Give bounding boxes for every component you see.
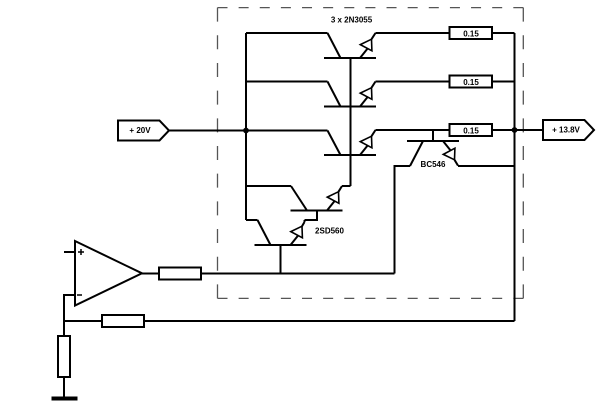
wire: op-amp non-inverting input stub: [64, 251, 75, 253]
transistor Q1 (2N3055): [324, 33, 376, 58]
wire: Q1 collector row: [246, 32, 328, 34]
svg-text:+ 13.8V: + 13.8V: [552, 126, 580, 135]
resistor R2 0.15: [450, 76, 493, 88]
wire: R4 to driver base node: [201, 273, 395, 275]
resistor R4 (op-amp output): [159, 268, 201, 280]
resistor R3 0.15: [450, 124, 493, 136]
svg-text:2SD560: 2SD560: [315, 227, 344, 236]
resistor R1 0.15: [450, 27, 493, 39]
wire: R5 to output bus bottom run: [144, 320, 515, 322]
wire: R6 bottom lead: [63, 377, 65, 397]
wire: left collector bus vertical: [245, 33, 247, 220]
wire: output node to +13.8V tag: [515, 129, 544, 131]
transistor Q3 (2N3055): [324, 130, 376, 155]
ground: [52, 397, 78, 401]
wire: Q4 base lead jog: [305, 211, 318, 221]
wire: feedback node to R5: [64, 320, 102, 322]
node: +20V junction dot: [243, 128, 249, 134]
svg-text:3 x 2N3055: 3 x 2N3055: [331, 16, 373, 25]
wire: Q1 emitter to R1: [376, 32, 450, 34]
wire: Q5 collector jog: [246, 219, 258, 221]
transistor Q2 (2N3055): [324, 82, 376, 107]
wire: Q4 emitter jog to base bus: [342, 185, 351, 187]
wire: base bus Q1-Q3 vertical: [350, 58, 352, 186]
wire: R2 to output bus: [492, 81, 515, 83]
wire: Q6 emitter to output bus: [458, 165, 515, 167]
wire: op-amp output to R4: [142, 273, 159, 275]
output tag +13.8V: [543, 120, 594, 140]
wire: Q6 collector down to driver node: [395, 166, 411, 274]
wire: Q2 emitter to R2: [376, 81, 450, 83]
wire: R6 top lead: [63, 321, 65, 336]
wire: Q3 emitter to R3: [376, 129, 450, 131]
transistor Q6 (BC546, inverted): [407, 130, 459, 166]
transistor Q4 (driver): [291, 186, 343, 211]
supply tag +20V: [118, 121, 169, 141]
svg-text:BC546: BC546: [421, 160, 446, 169]
wire: Q2 collector row: [246, 81, 328, 83]
resistor R5 (feedback): [102, 315, 144, 327]
transistor Q5 (2SD560): [255, 220, 307, 245]
wire: Q4 collector row: [246, 185, 291, 187]
wire: Q5 emitter jog to Q4 base: [304, 220, 306, 222]
dashed enclosure box: [218, 8, 524, 299]
wire: op-amp inverting input to feedback node: [64, 295, 75, 321]
svg-text:+ 20V: + 20V: [129, 126, 151, 135]
wire: Q3 collector row: [246, 130, 328, 132]
op-amp U1: [75, 241, 142, 306]
svg-text:0.15: 0.15: [463, 126, 479, 135]
wire: R3 to output node: [492, 129, 515, 131]
wire: +20V tag to input node: [169, 130, 246, 132]
wire: right output bus vertical: [514, 33, 516, 321]
svg-text:0.15: 0.15: [463, 78, 479, 87]
wire: R1 to output bus: [492, 32, 515, 34]
wire: Q5 base lead down: [280, 245, 282, 274]
node: output junction dot: [512, 127, 518, 133]
svg-text:0.15: 0.15: [463, 29, 479, 38]
resistor R6 (to ground): [58, 336, 70, 377]
